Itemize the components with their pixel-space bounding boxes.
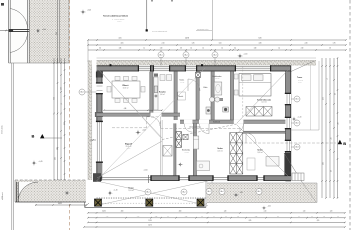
svg-text:6,64: 6,64	[56, 32, 58, 35]
svg-text:1,40: 1,40	[137, 216, 140, 218]
svg-text:6,64: 6,64	[54, 97, 56, 100]
svg-text:1,4: 1,4	[298, 216, 300, 218]
svg-text:0,3: 0,3	[99, 48, 101, 50]
svg-text:Mosók.: Mosók.	[179, 96, 184, 98]
svg-text:1,76: 1,76	[333, 43, 336, 45]
svg-text:2019.04: 2019.04	[118, 21, 122, 23]
svg-text:3,40: 3,40	[254, 48, 257, 50]
svg-text:2,10: 2,10	[264, 211, 267, 213]
svg-text:1,40: 1,40	[224, 211, 227, 213]
svg-text:4,05: 4,05	[121, 43, 124, 45]
svg-text:1,50: 1,50	[255, 216, 258, 218]
svg-text:Közlekedő: Közlekedő	[213, 121, 220, 123]
svg-text:1,0: 1,0	[337, 216, 339, 218]
svg-text:1,50: 1,50	[338, 122, 340, 125]
svg-text:2,40: 2,40	[55, 157, 57, 160]
svg-text:10,05 m2: 10,05 m2	[257, 152, 263, 154]
svg-text:-0,05: -0,05	[240, 192, 244, 194]
svg-text:3,45: 3,45	[119, 48, 122, 50]
svg-text:Terasz: Terasz	[297, 77, 302, 79]
svg-text:2,4 m2: 2,4 m2	[181, 82, 185, 84]
svg-text:0,9: 0,9	[311, 216, 313, 218]
svg-text:14,76: 14,76	[185, 38, 189, 40]
svg-text:+0,00: +0,00	[42, 29, 46, 31]
svg-text:1,0: 1,0	[201, 216, 203, 218]
svg-text:12,41 m2: 12,41 m2	[298, 79, 303, 81]
svg-text:5,24 m2: 5,24 m2	[215, 78, 220, 80]
svg-text:29,43 m2: 29,43 m2	[128, 190, 134, 192]
svg-text:1,5: 1,5	[237, 216, 239, 218]
svg-text:4,30: 4,30	[259, 43, 262, 45]
svg-text:1,0: 1,0	[190, 48, 192, 50]
svg-text:4,05: 4,05	[119, 38, 122, 40]
svg-text:0,9: 0,9	[331, 170, 333, 172]
svg-text:6,80: 6,80	[259, 38, 262, 40]
svg-text:1,4: 1,4	[213, 216, 215, 218]
svg-text:0,9: 0,9	[167, 216, 169, 218]
svg-text:2,40: 2,40	[323, 162, 325, 165]
svg-text:+1,40: +1,40	[298, 117, 302, 119]
svg-text:B: B	[32, 134, 35, 139]
svg-text:1,5: 1,5	[221, 48, 223, 50]
svg-text:1,2: 1,2	[61, 103, 63, 105]
svg-text:Étkező: Étkező	[122, 84, 129, 87]
svg-text:Konyha: Konyha	[159, 92, 167, 94]
svg-text:-0,02: -0,02	[268, 206, 271, 208]
svg-text:Kamra: Kamra	[180, 80, 185, 82]
svg-text:Fürdőszoba: Fürdőszoba	[213, 75, 222, 78]
svg-text:greslap: greslap	[298, 81, 302, 83]
svg-text:15,95 m2: 15,95 m2	[123, 87, 129, 89]
svg-text:2,50: 2,50	[301, 48, 304, 50]
svg-text:2,1: 2,1	[277, 216, 279, 218]
svg-text:+1,40: +1,40	[114, 190, 118, 192]
svg-text:térkő járda: térkő járda	[1, 126, 4, 135]
svg-text:0,9: 0,9	[335, 93, 337, 95]
svg-text:11,30: 11,30	[148, 220, 152, 222]
svg-text:1,10: 1,10	[303, 211, 306, 213]
svg-text:9,46 m2: 9,46 m2	[160, 94, 165, 96]
svg-text:1,50: 1,50	[185, 216, 188, 218]
svg-text:2,9: 2,9	[329, 48, 331, 50]
svg-text:+0,45: +0,45	[39, 161, 43, 163]
svg-text:4,435: 4,435	[58, 203, 62, 205]
svg-text:3,10: 3,10	[323, 97, 325, 100]
svg-text:1,50: 1,50	[61, 87, 63, 90]
svg-text:Mosókonyha: Mosókonyha	[182, 149, 190, 151]
svg-text:4,60: 4,60	[121, 211, 124, 213]
svg-text:+0,00: +0,00	[144, 170, 148, 172]
svg-text:Szülői hálószoba: Szülői hálószoba	[257, 99, 271, 101]
svg-text:B: B	[343, 141, 346, 146]
svg-text:4,55: 4,55	[317, 220, 320, 222]
svg-text:0,9: 0,9	[64, 123, 66, 125]
svg-text:1,5: 1,5	[202, 48, 204, 50]
svg-text:1,4: 1,4	[278, 48, 280, 50]
svg-text:10,05 m2: 10,05 m2	[217, 150, 223, 152]
svg-text:3,10: 3,10	[57, 147, 59, 150]
svg-text:0,9: 0,9	[180, 48, 182, 50]
svg-text:4,66: 4,66	[124, 108, 127, 110]
svg-text:1,1: 1,1	[143, 48, 145, 50]
svg-text:4,05 m2: 4,05 m2	[184, 152, 189, 154]
svg-text:1,2: 1,2	[327, 78, 329, 80]
svg-text:+0,00: +0,00	[87, 10, 91, 12]
svg-text:14,11 m2: 14,11 m2	[261, 102, 267, 104]
svg-text:M = 1:100 sz. rajzszám: M = 1:100 sz. rajzszám	[112, 19, 124, 21]
svg-text:24,74: 24,74	[148, 225, 152, 227]
svg-text:0,4: 0,4	[234, 48, 236, 50]
svg-text:1,2: 1,2	[323, 216, 325, 218]
svg-text:4,60: 4,60	[179, 211, 182, 213]
svg-text:1,35: 1,35	[192, 43, 195, 45]
svg-text:Terasz: Terasz	[128, 188, 133, 190]
svg-text:1,50: 1,50	[331, 137, 333, 140]
svg-text:4,435: 4,435	[102, 211, 106, 213]
svg-text:2,40: 2,40	[305, 43, 308, 45]
svg-text:6,95: 6,95	[249, 220, 252, 222]
svg-text:0,9: 0,9	[225, 216, 227, 218]
svg-text:2,10: 2,10	[162, 43, 165, 45]
svg-text:1,20: 1,20	[330, 211, 333, 213]
svg-text:1,50: 1,50	[160, 48, 163, 50]
svg-text:Nappali: Nappali	[125, 143, 133, 145]
svg-text:4,40: 4,40	[106, 216, 109, 218]
svg-text:1,50: 1,50	[219, 43, 222, 45]
svg-text:+0,00: +0,00	[244, 54, 248, 56]
svg-text:1,50: 1,50	[155, 216, 158, 218]
